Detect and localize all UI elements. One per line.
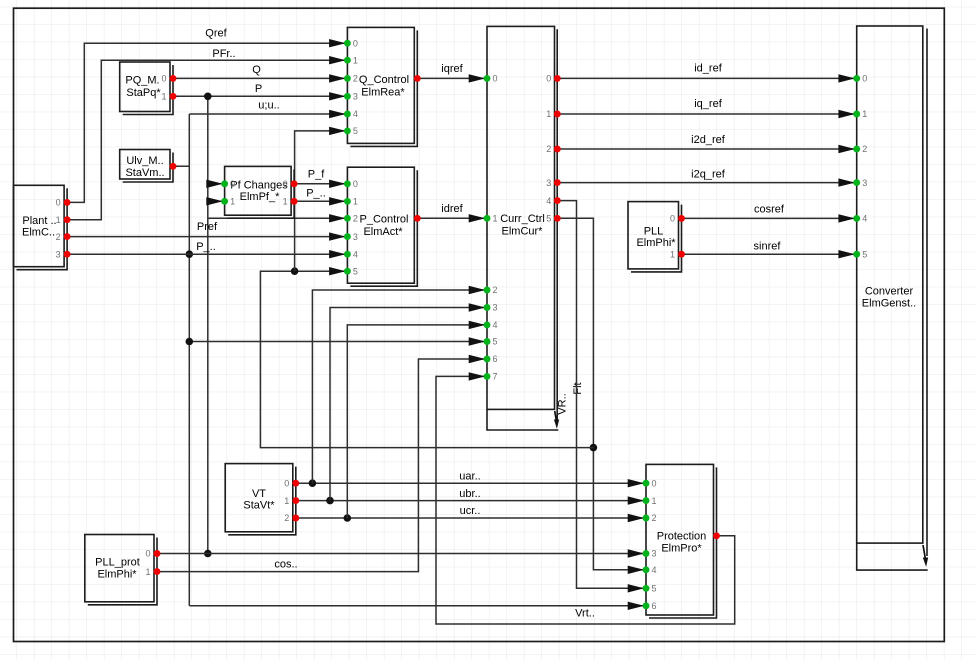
slot Plant ElmC (plant controller) bbox=[14, 185, 71, 269]
wire ubr riser to Curr_Ctrl.3 bbox=[330, 308, 487, 501]
node junction Flt branch bbox=[590, 444, 598, 452]
svg-text:i2d_ref: i2d_ref bbox=[691, 134, 726, 146]
slot P_Control ElmAct (active power control) bbox=[344, 167, 421, 286]
svg-text:1: 1 bbox=[145, 567, 150, 577]
svg-text:0: 0 bbox=[862, 74, 867, 84]
svg-text:3: 3 bbox=[353, 232, 358, 242]
svg-text:PQ_M.: PQ_M. bbox=[125, 75, 159, 87]
svg-text:cosref: cosref bbox=[754, 204, 785, 216]
svg-text:ElmPhi*: ElmPhi* bbox=[636, 237, 676, 249]
svg-text:1: 1 bbox=[546, 109, 551, 119]
svg-text:0: 0 bbox=[353, 38, 358, 48]
svg-text:0: 0 bbox=[493, 74, 498, 84]
svg-text:ucr..: ucr.. bbox=[460, 505, 481, 517]
svg-text:Q_Control: Q_Control bbox=[359, 74, 409, 86]
wire net Vrt..: Protection out to Curr_Ctrl.7 bbox=[436, 376, 735, 624]
slot PLL ElmPhi (phase locked loop) bbox=[628, 202, 685, 272]
svg-text:3: 3 bbox=[652, 549, 657, 559]
wire branch P to Pf_Changes.0 bbox=[208, 183, 225, 185]
Converter bottom exit arrow bbox=[923, 545, 925, 559]
svg-text:ElmPf_*: ElmPf_* bbox=[240, 191, 280, 203]
wire net uar..: VT.0 to Protection.0 and Curr_Ctrl.2 bbox=[295, 482, 646, 484]
svg-text:0: 0 bbox=[145, 549, 150, 559]
svg-text:0: 0 bbox=[56, 198, 61, 208]
svg-text:Flt: Flt bbox=[572, 382, 584, 394]
slot PQ_M StaPq (PQ measurement) bbox=[120, 62, 177, 115]
wire net ubr..: VT.1 to Protection.1 and Curr_Ctrl.3 bbox=[295, 500, 646, 502]
wire net Flt: Curr_Ctrl out5 to Protection.4, Q_Control.5, P_Control.5 bbox=[557, 218, 646, 570]
svg-text:StaVt*: StaVt* bbox=[243, 500, 275, 512]
svg-text:Ulv_M..: Ulv_M.. bbox=[126, 155, 163, 167]
wire branch P to P_Control.2 bbox=[208, 217, 348, 219]
svg-text:ubr..: ubr.. bbox=[459, 488, 480, 500]
slot PLL_prot ElmPhi (protection PLL) bbox=[85, 535, 161, 605]
wire net P: PQ_M.1 to Q_Control.3, Pf_Changes.0, Pf_Changes.1, P_Control.2, joins node at PLL_prot.0 wire bbox=[173, 95, 348, 97]
wire net P_.. : Plant.3 to P_Control.4 bbox=[67, 253, 348, 255]
svg-text:Protection: Protection bbox=[657, 531, 707, 543]
svg-text:i2q_ref: i2q_ref bbox=[691, 169, 726, 181]
svg-text:ElmRea*: ElmRea* bbox=[361, 87, 405, 99]
svg-text:uar..: uar.. bbox=[459, 471, 480, 483]
svg-text:sinref: sinref bbox=[754, 241, 782, 253]
svg-text:7: 7 bbox=[493, 372, 498, 382]
node junction uar riser bbox=[309, 479, 317, 487]
svg-text:0: 0 bbox=[652, 478, 657, 488]
svg-text:1: 1 bbox=[862, 109, 867, 119]
svg-text:1: 1 bbox=[353, 197, 358, 207]
svg-text:Pref: Pref bbox=[197, 221, 218, 233]
svg-text:StaPq*: StaPq* bbox=[126, 87, 161, 99]
svg-text:ElmC..: ElmC.. bbox=[22, 227, 55, 239]
svg-text:Curr_Ctrl: Curr_Ctrl bbox=[500, 213, 545, 225]
wire net cosref: PLL.0 to Converter.4 bbox=[681, 217, 856, 219]
svg-text:2: 2 bbox=[652, 513, 657, 523]
svg-text:idref: idref bbox=[441, 203, 463, 215]
svg-text:ElmPro*: ElmPro* bbox=[661, 543, 702, 555]
svg-text:2: 2 bbox=[353, 214, 358, 224]
svg-text:cos..: cos.. bbox=[274, 559, 297, 571]
svg-text:3: 3 bbox=[493, 303, 498, 313]
wire net P_f: Pf_Changes.0 to P_Control.0 bbox=[294, 183, 348, 185]
node junction P / PLL_prot.0 wire bbox=[204, 550, 212, 558]
wire uar riser to Curr_Ctrl.2 bbox=[312, 290, 487, 483]
slot VT StaVt (voltage transformer) bbox=[225, 464, 299, 535]
wire net Q: PQ_M.0 to Q_Control.2 bbox=[173, 77, 348, 79]
wire ucr riser to Curr_Ctrl.4 bbox=[347, 325, 487, 518]
svg-text:5: 5 bbox=[652, 584, 657, 594]
svg-text:id_ref: id_ref bbox=[694, 63, 722, 75]
svg-text:PLL_prot: PLL_prot bbox=[95, 557, 140, 569]
svg-text:6: 6 bbox=[493, 354, 498, 364]
svg-text:1: 1 bbox=[161, 92, 166, 102]
svg-text:Plant ..: Plant .. bbox=[22, 215, 56, 227]
wire net PLL_prot.0 to Protection.3 bbox=[156, 553, 646, 555]
wire net i2d_ref: Curr_Ctrl out2 to Converter.2 bbox=[557, 148, 856, 150]
svg-text:0: 0 bbox=[161, 74, 166, 84]
wire P vertical bbox=[207, 96, 209, 553]
wire u;u.. branch to Q_Control.4 bbox=[189, 113, 347, 115]
svg-text:5: 5 bbox=[353, 266, 358, 276]
svg-text:1: 1 bbox=[353, 55, 358, 65]
svg-text:1: 1 bbox=[284, 496, 289, 506]
wire branch u to Curr_Ctrl.5 bbox=[189, 341, 487, 343]
svg-text:Q: Q bbox=[252, 64, 261, 76]
svg-text:VR..: VR.. bbox=[557, 393, 569, 414]
svg-text:5: 5 bbox=[862, 249, 867, 259]
svg-text:4: 4 bbox=[493, 320, 498, 330]
svg-text:1: 1 bbox=[652, 496, 657, 506]
wire net id_ref: Curr_Ctrl out0 to Converter.0 bbox=[557, 77, 856, 79]
svg-text:0: 0 bbox=[670, 214, 675, 224]
svg-text:6: 6 bbox=[652, 601, 657, 611]
wire net Pref: Plant.2 to P_Control.3 bbox=[67, 236, 348, 238]
svg-text:ElmAct*: ElmAct* bbox=[363, 226, 403, 238]
svg-text:P_f: P_f bbox=[308, 169, 325, 181]
svg-text:3: 3 bbox=[56, 249, 61, 259]
svg-text:ElmCur*: ElmCur* bbox=[502, 226, 544, 238]
svg-text:1: 1 bbox=[670, 249, 675, 259]
node junction u branch Curr_Ctrl.5 bbox=[186, 338, 194, 346]
svg-text:4: 4 bbox=[652, 565, 657, 575]
svg-text:0: 0 bbox=[230, 179, 235, 189]
svg-text:ElmPhi*: ElmPhi* bbox=[97, 569, 137, 581]
svg-text:Pf Changes: Pf Changes bbox=[230, 179, 288, 191]
wire net P_-: Pf_Changes.1 to P_Control.1 bbox=[294, 200, 348, 202]
svg-text:5: 5 bbox=[546, 214, 551, 224]
svg-text:P_..: P_.. bbox=[306, 188, 326, 200]
svg-text:1: 1 bbox=[56, 215, 61, 225]
svg-text:1: 1 bbox=[230, 197, 235, 207]
node junction P / PQ_M wire bbox=[204, 93, 212, 101]
svg-text:PFr..: PFr.. bbox=[212, 48, 235, 60]
wire net cos..: PLL_prot.1 to Curr_Ctrl.6 bbox=[156, 359, 487, 572]
slot Pf_Changes ElmPf (Pf changes) bbox=[221, 166, 297, 218]
svg-text:Qref: Qref bbox=[205, 28, 227, 40]
wire net u (Ulv_M.0): to Q_Control.4 (u;u..), Curr_Ctrl.5, Protection.6 bbox=[173, 165, 190, 167]
svg-text:0: 0 bbox=[353, 179, 358, 189]
svg-text:0: 0 bbox=[283, 179, 288, 189]
svg-text:VT: VT bbox=[252, 488, 266, 500]
wire branch P to Pf_Changes.1 bbox=[208, 200, 225, 202]
Curr_Ctrl bottom exit arrow bbox=[555, 411, 557, 421]
wire net sinref: PLL.1 to Converter.5 bbox=[681, 253, 856, 255]
svg-text:ElmGenst..: ElmGenst.. bbox=[862, 298, 916, 310]
svg-text:4: 4 bbox=[353, 109, 358, 119]
svg-text:1: 1 bbox=[493, 214, 498, 224]
svg-text:2: 2 bbox=[546, 144, 551, 154]
slot Protection ElmPro (protection relay) bbox=[643, 464, 720, 618]
svg-text:0: 0 bbox=[284, 478, 289, 488]
svg-text:2: 2 bbox=[284, 513, 289, 523]
svg-text:4: 4 bbox=[862, 214, 867, 224]
svg-text:P: P bbox=[255, 83, 262, 95]
svg-text:P_..: P_.. bbox=[196, 241, 216, 253]
svg-text:4: 4 bbox=[546, 196, 551, 206]
svg-text:u;u..: u;u.. bbox=[258, 100, 279, 112]
svg-text:3: 3 bbox=[353, 92, 358, 102]
node junction u / Plant.3 wire bbox=[186, 250, 194, 258]
svg-text:2: 2 bbox=[493, 285, 498, 295]
svg-text:iqref: iqref bbox=[441, 63, 463, 75]
wire net idref: P_Control out to Curr_Ctrl.1 bbox=[417, 217, 487, 219]
svg-text:P_Control: P_Control bbox=[360, 214, 409, 226]
svg-text:5: 5 bbox=[493, 337, 498, 347]
wire net iq_ref: Curr_Ctrl out1 to Converter.1 bbox=[557, 113, 856, 115]
svg-text:PLL: PLL bbox=[644, 226, 664, 238]
svg-text:2: 2 bbox=[353, 74, 358, 84]
slot Curr_Ctrl ElmCur (current controller) bbox=[484, 26, 561, 430]
wire Flt riser to Q_Control.5 bbox=[295, 131, 348, 271]
svg-text:0: 0 bbox=[546, 74, 551, 84]
svg-text:2: 2 bbox=[56, 232, 61, 242]
svg-text:2: 2 bbox=[862, 144, 867, 154]
wire net PFr..: Plant.1 to Q_Control.1 bbox=[67, 60, 348, 220]
svg-text:3: 3 bbox=[862, 178, 867, 188]
wire branch u to Protection.6 bbox=[189, 605, 646, 607]
svg-text:iq_ref: iq_ref bbox=[694, 98, 722, 110]
slot Ulv_M StaVm (voltage measurement) bbox=[120, 150, 177, 183]
svg-text:5: 5 bbox=[353, 126, 358, 136]
node junction ubr riser bbox=[326, 497, 334, 505]
node junction Flt riser bbox=[291, 267, 299, 275]
svg-text:Converter: Converter bbox=[865, 286, 914, 298]
svg-text:1: 1 bbox=[283, 197, 288, 207]
slot Q_Control ElmRea (reactive power control) bbox=[344, 27, 421, 146]
slot Converter ElmGenst (static generator converter) bbox=[853, 26, 928, 570]
svg-text:Vrt..: Vrt.. bbox=[575, 608, 595, 620]
wire net ucr..: VT.2 to Protection.2 and Curr_Ctrl.4 bbox=[295, 517, 646, 519]
svg-text:4: 4 bbox=[353, 249, 358, 259]
wire net i2q_ref: Curr_Ctrl out3 to Converter.3 bbox=[557, 182, 856, 184]
wire Flt branch left and up bbox=[260, 271, 593, 447]
wire net VR..: Curr_Ctrl out4 to Protection.5 bbox=[557, 201, 646, 589]
wire net Qref: Plant.0 to Q_Control.0 bbox=[67, 43, 348, 202]
wire net iqref: Q_Control out to Curr_Ctrl.0 bbox=[417, 77, 487, 79]
svg-text:3: 3 bbox=[546, 178, 551, 188]
node junction ucr riser bbox=[344, 514, 352, 522]
svg-text:StaVm..: StaVm.. bbox=[125, 167, 164, 179]
wire u vertical bbox=[188, 114, 190, 606]
